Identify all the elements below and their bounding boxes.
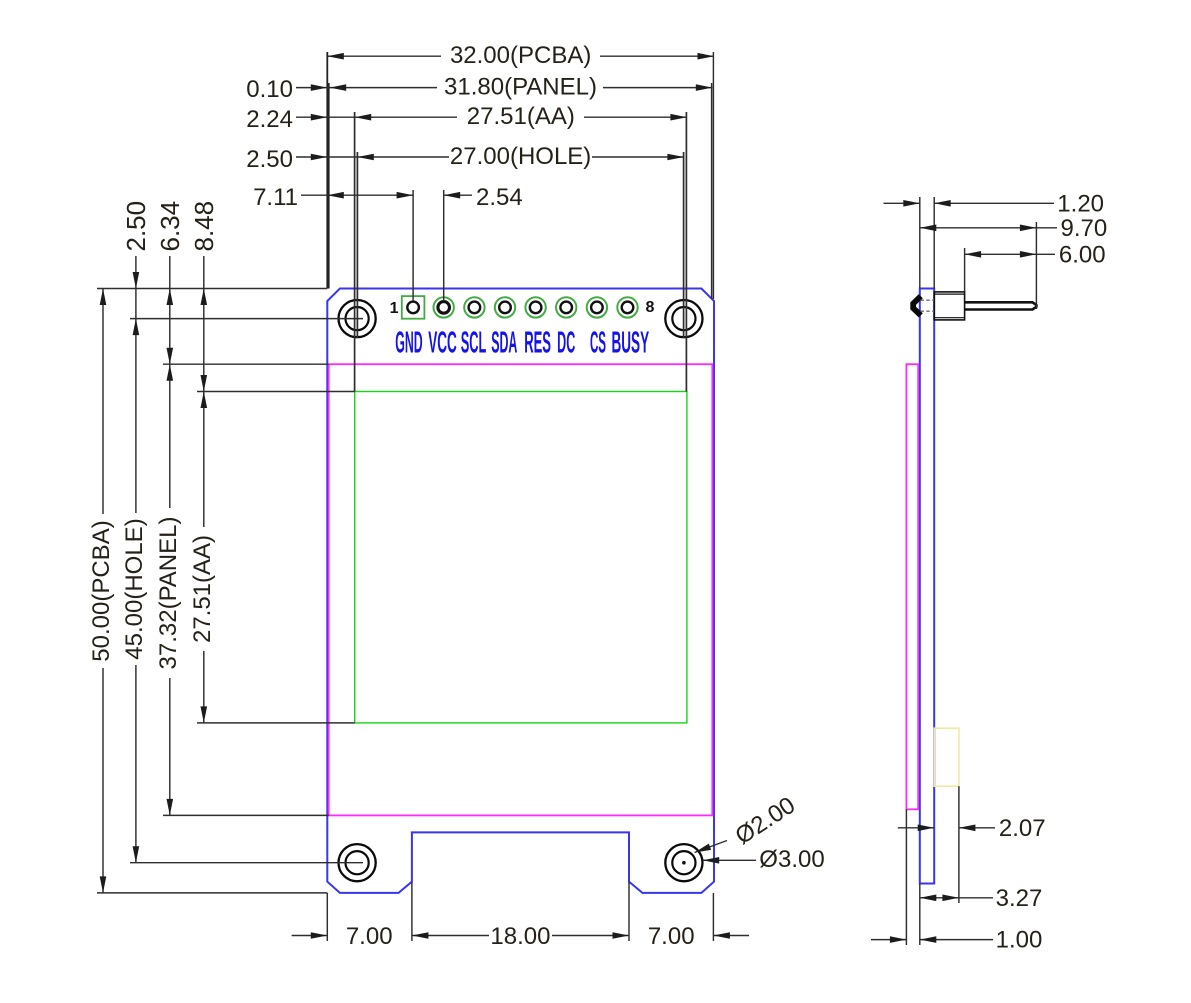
mounting hole top-left	[339, 300, 376, 337]
svg-text:8.48: 8.48	[189, 201, 219, 252]
dimension 18.00	[412, 935, 629, 937]
mounting hole bottom-left	[339, 844, 376, 881]
extension line notch left (bottom)	[411, 882, 413, 941]
side view driver component (yellow)	[934, 728, 959, 786]
extension line AA bottom edge (left)	[197, 722, 355, 724]
dimension 45.00(HOLE) vertical with 2.50 offset	[135, 256, 137, 863]
svg-text:Ø3.00: Ø3.00	[759, 846, 824, 873]
dimension 2.07	[898, 827, 934, 829]
pin 4 pad	[495, 297, 515, 317]
dimension 27.00(HOLE)	[296, 156, 684, 158]
dimension 6.00	[965, 253, 1055, 255]
pin 3 pad	[464, 297, 484, 317]
extension line hole right center	[683, 152, 685, 338]
pin 8 pad	[617, 297, 637, 317]
extension line AA left edge	[354, 112, 356, 392]
svg-text:31.80(PANEL): 31.80(PANEL)	[444, 74, 597, 101]
extension line pcb right edge (top)	[712, 52, 714, 299]
svg-text:1: 1	[390, 300, 399, 317]
svg-text:0.10: 0.10	[246, 76, 293, 103]
mounting hole bottom-right	[665, 844, 702, 881]
svg-text:7.00: 7.00	[346, 923, 393, 950]
pin 2 pad	[434, 297, 454, 317]
mounting hole top-right	[665, 300, 702, 337]
leader diameter 3.00	[703, 859, 756, 861]
svg-text:37.32(PANEL): 37.32(PANEL)	[155, 517, 182, 670]
extension line housing right (top)	[964, 248, 966, 292]
svg-text:1.20: 1.20	[1057, 190, 1104, 217]
svg-text:SCL: SCL	[461, 325, 487, 360]
extension line bottom hole center (left)	[130, 862, 363, 864]
dimension 9.70	[920, 227, 1057, 229]
dimension 7.11	[301, 194, 413, 196]
svg-text:7.11: 7.11	[253, 184, 298, 211]
dimension 32.00(PCBA)	[327, 55, 714, 57]
svg-text:6.00: 6.00	[1059, 241, 1106, 268]
svg-text:18.00: 18.00	[490, 923, 550, 950]
side view hidden pin lines	[921, 299, 935, 301]
svg-text:27.00(HOLE): 27.00(HOLE)	[450, 143, 591, 170]
svg-text:1.00: 1.00	[996, 927, 1043, 954]
extension line component right (bottom)	[958, 786, 960, 903]
side view header pin	[965, 302, 1037, 309]
extension line side pcb left face (top)	[919, 197, 921, 289]
extension line AA top edge (left)	[197, 391, 355, 393]
extension line panel left edge (top)	[328, 83, 330, 289]
svg-text:CS: CS	[590, 325, 606, 360]
side view pin solder end (back side)	[913, 296, 921, 315]
extension line pcb left edge (bottom)	[326, 893, 328, 941]
extension line side pcb left face (bottom)	[919, 884, 921, 946]
PCB board outline (front view)	[327, 289, 714, 893]
extension line pcb bottom edge (left)	[97, 892, 327, 894]
svg-text:2.54: 2.54	[476, 184, 523, 211]
extension line pin tip	[1035, 222, 1037, 309]
svg-text:BUSY: BUSY	[612, 325, 650, 360]
dimension 50.00(PCBA) vertical	[102, 289, 104, 893]
svg-text:2.24: 2.24	[246, 106, 293, 133]
svg-text:32.00(PCBA): 32.00(PCBA)	[450, 42, 591, 69]
svg-text:6.34: 6.34	[155, 201, 185, 252]
extension line pcb left edge (top)	[326, 52, 328, 289]
extension line hole left center	[356, 152, 358, 338]
extension line pin1 (top)	[412, 190, 414, 301]
extension line panel top edge (left)	[163, 363, 329, 365]
extension line panel right edge (top)	[711, 83, 713, 299]
svg-text:3.27: 3.27	[996, 885, 1043, 912]
pin 6 pad	[556, 297, 576, 317]
display panel outline (magenta)	[329, 364, 713, 815]
pin 5 pad	[525, 297, 545, 317]
dimension 37.32(PANEL) vertical with 6.34 offset	[169, 256, 171, 815]
svg-text:27.51(AA): 27.51(AA)	[467, 103, 575, 130]
dimension 1.20	[884, 202, 920, 204]
dimension 1.00	[871, 939, 906, 941]
extension line panel bottom edge (left)	[163, 814, 329, 816]
dimension 31.80(PANEL)	[296, 87, 712, 89]
extension line top hole center (left)	[130, 318, 363, 320]
svg-text:VCC: VCC	[428, 325, 457, 360]
extension line notch right (bottom)	[628, 882, 630, 941]
leader diameter 2.00	[695, 841, 728, 853]
svg-text:SDA: SDA	[491, 325, 517, 360]
extension line AA right edge	[685, 112, 687, 392]
svg-text:27.51(AA): 27.51(AA)	[189, 535, 216, 643]
side view header housing	[934, 292, 964, 320]
side view PCB	[920, 289, 934, 884]
dimension 3.27	[920, 897, 993, 899]
svg-text:8: 8	[646, 299, 655, 316]
extension line side pcb right face (top)	[933, 197, 935, 289]
svg-text:GND: GND	[395, 325, 422, 360]
dimension 2.54	[444, 194, 472, 196]
side view panel (magenta)	[906, 364, 918, 809]
svg-text:9.70: 9.70	[1061, 215, 1108, 242]
svg-text:50.00(PCBA): 50.00(PCBA)	[88, 520, 115, 661]
dimension 27.51(AA) vertical with 8.48 offset	[203, 256, 205, 723]
pin 7 pad	[587, 297, 607, 317]
extension line pcb right edge (bottom)	[712, 893, 714, 941]
dimension 27.51(AA)	[296, 116, 687, 118]
svg-text:2.50: 2.50	[121, 201, 151, 252]
extension line side panel left (bottom)	[905, 809, 907, 945]
svg-text:7.00: 7.00	[648, 923, 695, 950]
svg-text:2.50: 2.50	[246, 146, 293, 173]
svg-text:RES: RES	[524, 325, 551, 360]
svg-text:45.00(HOLE): 45.00(HOLE)	[121, 518, 148, 659]
pin 1 pad (square)	[402, 296, 425, 319]
active area outline (green)	[355, 392, 687, 723]
svg-text:2.07: 2.07	[999, 815, 1046, 842]
extension line pcb top edge (left)	[97, 288, 327, 290]
dimension 7.00 left	[292, 935, 328, 937]
extension line pin2 (top)	[443, 190, 445, 301]
svg-text:DC: DC	[557, 325, 575, 360]
